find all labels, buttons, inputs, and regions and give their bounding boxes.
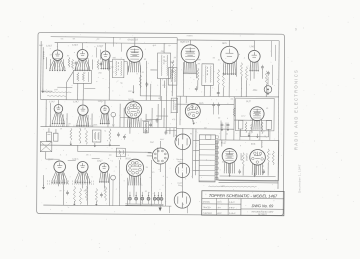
wire net verts [217,85,219,96]
box lower right of V8 [266,121,271,130]
svg-text:1M: 1M [109,155,112,157]
svg-text:5Y3: 5Y3 [250,120,253,122]
wire bus y146 [40,144,119,147]
wire V1 side drops [49,59,51,69]
wire amp bottom [219,180,278,182]
svg-text:15: 15 [84,128,86,130]
svg-text:250: 250 [98,73,101,75]
resistor R21 [73,186,75,202]
ground bottom a [73,201,75,203]
wire top bus [51,36,177,39]
tube V4 50L6GT output [127,46,143,62]
speaker plug P1 [175,134,191,150]
svg-text:100K: 100K [93,124,98,126]
capacitor C16 [262,170,265,172]
svg-text:LA6: LA6 [250,45,255,48]
wire V2 side drops [75,66,77,71]
wire V9 top [57,100,59,105]
svg-text:12Q7: 12Q7 [97,45,104,48]
resistor R25 [104,187,106,201]
svg-text:OUTPUT: OUTPUT [175,102,177,110]
svg-text:2-10-47: 2-10-47 [229,213,236,215]
svg-text:3: 3 [224,80,225,82]
resistor R19 [85,130,87,144]
svg-text:6: 6 [171,91,172,93]
svg-text:40: 40 [266,108,268,110]
svg-text:12K7: 12K7 [73,101,79,104]
resistor R1b [68,57,70,67]
svg-text:25: 25 [146,167,148,169]
capacitor C21 [165,131,168,133]
svg-text:ANT: ANT [39,44,44,47]
resistor R10 [240,63,242,77]
wire drops topleft [62,59,64,70]
svg-text:20: 20 [218,117,220,119]
svg-text:8: 8 [232,62,233,64]
tube V19 6V5 [185,103,200,118]
svg-text:.1: .1 [92,55,94,57]
resistor R27 [267,149,269,163]
svg-text:8: 8 [139,79,140,81]
svg-text:TOPPER SCHEMATIC - MODEL 14: TOPPER SCHEMATIC - MODEL 1467 [209,193,278,199]
rectifier box [235,98,274,131]
electrolytic can A [46,132,51,141]
title block frame [202,191,284,216]
svg-text:4: 4 [57,66,58,68]
wire h-net1 [177,95,279,98]
dial lamp row3 [111,175,116,180]
svg-text:.5: .5 [244,58,246,60]
resistor R16 [261,122,263,134]
ground V8 a [248,133,250,135]
wire mid bus [41,100,177,101]
wire right top drop [271,41,273,57]
wire left bus [40,41,42,99]
note handwriting bottom [209,186,257,187]
svg-text:2-8-47: 2-8-47 [229,207,234,209]
output transformer small [171,98,178,113]
svg-text:TRACED: TRACED [203,206,211,209]
wire bottom bus [43,205,171,206]
wire amp verts [229,164,231,175]
svg-text:3: 3 [220,169,221,171]
svg-text:.1: .1 [115,189,117,191]
svg-text:6: 6 [163,185,164,187]
resistor R5 [139,75,141,88]
wire V1 grid cap [57,43,59,50]
svg-text:5: 5 [78,64,79,66]
wire loop leads [45,152,47,159]
svg-text:.1: .1 [60,154,62,156]
svg-text:5: 5 [270,154,271,156]
capacitor C7 [221,123,224,125]
svg-text:2: 2 [117,81,118,83]
capacitor C11 [117,133,120,135]
svg-text:12A7: 12A7 [48,158,54,161]
svg-text:+: + [58,96,59,98]
tube V2 12SK7 IF amp [77,49,88,60]
capacitor C6 [261,66,264,68]
tube socket S1 [152,148,168,164]
wire V5 to box [182,62,184,96]
capacitor C15 [238,170,241,172]
tube V8 rectifier [250,107,264,121]
IF transformer T3 [157,53,170,79]
wire arrow V4 cathode [132,85,134,91]
resistor R15 [250,123,252,134]
wire right mids [176,128,195,130]
wire rect box drops [239,131,241,140]
svg-text:5: 5 [92,176,93,178]
svg-text:3: 3 [157,85,158,87]
svg-text:250: 250 [163,61,166,63]
capacitor C8 [227,124,230,126]
svg-text:osc: osc [61,38,64,40]
svg-text:2: 2 [246,160,247,162]
svg-text:50: 50 [158,98,160,100]
tube V13 [54,161,66,173]
svg-text:9: 9 [295,28,297,32]
wire osc drops [77,83,79,99]
wire h-net3 [233,97,235,140]
svg-text:2M: 2M [112,125,115,127]
svg-text:12Q7: 12Q7 [98,100,105,103]
svg-text:4: 4 [114,171,115,173]
capacitor C22 [145,130,148,132]
tube V14 [77,161,88,172]
wire top gaps [96,47,98,57]
tube V5 6Q6GT [181,45,199,63]
ground V19 [192,119,194,122]
wire socket leads [159,141,161,148]
capacitor C1b [75,62,78,64]
svg-text:2-6-47: 2-6-47 [229,202,234,204]
resistor R11 [245,67,247,81]
wire right col [216,141,218,179]
svg-text:.02: .02 [230,99,233,101]
wire section divider [175,38,178,141]
capacitor C12 [123,136,126,138]
wire h-net4 [234,119,272,121]
svg-text:1: 1 [66,154,67,156]
wire T2 links [109,61,112,63]
svg-text:456: 456 [161,51,164,53]
terminal strip TS1 [199,135,215,182]
wire V8 bottom [239,129,241,137]
svg-text:4: 4 [255,70,256,72]
svg-text:.05: .05 [67,55,70,57]
wire L-bend row2 [146,96,161,120]
coupling coil box A [168,68,177,86]
tube V9 [54,104,63,113]
tube V11 [101,105,110,114]
svg-text:pad: pad [54,89,57,91]
resistor R2b [71,59,73,69]
svg-text:500: 500 [110,67,113,69]
svg-text:6K5: 6K5 [222,42,227,45]
svg-text:1: 1 [270,62,271,64]
svg-text:CHECKED: CHECKED [203,213,213,215]
oscillator coil box [73,70,91,83]
resistor R7 [217,69,219,85]
svg-text:gnd: gnd [222,185,225,187]
IF transformer T2 [112,59,124,78]
svg-text:2: 2 [201,91,202,93]
svg-text:Plug: Plug [178,161,182,163]
svg-text:25: 25 [103,191,105,193]
ground C7 [221,127,223,129]
svg-text:20MFD: 20MFD [247,153,249,161]
capacitor C3 [145,83,148,85]
svg-text:2: 2 [86,66,87,68]
svg-text:Plug: Plug [178,185,182,187]
svg-text:6.3: 6.3 [152,172,155,174]
svg-text:12A7: 12A7 [50,53,54,56]
resistor R24 [95,188,97,202]
tube V7 LA6 [248,50,260,62]
capacitor C13 [66,191,69,193]
svg-text:+: + [152,193,153,195]
svg-text:.05: .05 [86,154,89,156]
resistor R22 [79,188,81,204]
svg-text:heaters: heaters [187,34,193,37]
svg-text:250: 250 [162,85,165,87]
ground amp [229,173,231,175]
tube V1 12SA7 converter [52,50,62,60]
svg-text:6V6: 6V6 [251,143,256,146]
wire top bus right [177,39,279,42]
resistor R20 [109,129,111,142]
ground left bottom [43,175,45,186]
svg-text:6: 6 [112,117,113,119]
wire mid bus2 [40,127,176,128]
ground bottom b [95,202,97,204]
wire bottom right drops [186,206,188,213]
tube V18 6V6GT [250,149,266,165]
svg-text:2: 2 [90,154,91,156]
svg-text:avc: avc [97,38,100,40]
svg-text:2: 2 [247,66,248,68]
ground antenna [42,89,44,91]
svg-text:117V: 117V [241,116,246,118]
svg-text:5: 5 [167,177,168,179]
speaker plug P2 [175,163,189,177]
svg-text:12A7: 12A7 [46,45,52,48]
svg-text:5: 5 [66,118,67,120]
wire V4 drops [139,65,141,95]
resistor R28 [272,151,274,165]
svg-text:1: 1 [170,123,171,125]
wire AVC bus [55,42,177,45]
wire V7 top [253,41,255,51]
resistor R14 [245,122,247,133]
svg-text:1: 1 [196,145,197,147]
wire drops row3 [58,174,60,186]
pin ticks V13 [47,180,49,182]
pin ticks V10 [73,125,75,127]
loop antenna box [40,142,52,152]
svg-text:DWG No. 69: DWG No. 69 [252,204,274,208]
resistor R3 [97,60,99,70]
coupling coil box B [202,64,214,86]
svg-text:20: 20 [60,128,62,130]
svg-text:2: 2 [46,108,47,110]
svg-text:+: + [211,99,212,101]
svg-text:12A7: 12A7 [49,100,55,103]
bias resistor box [143,121,148,133]
svg-text:6Q8 GT: 6Q8 GT [180,41,189,44]
capacitor C23 [149,123,152,125]
wire plug links [182,150,184,164]
svg-text:500K: 500K [196,59,201,61]
tube V6 6V6 [221,46,239,64]
resistor R6 [172,60,174,73]
capacitor C14 [100,194,103,196]
amplifier chassis box [217,140,279,180]
wire box drops [203,85,205,96]
wire net5 [196,128,234,130]
svg-text:.01: .01 [217,59,220,61]
resistor R17 [70,128,72,140]
svg-text:+: + [119,95,120,97]
svg-text:+: + [216,99,217,101]
fuse box [205,135,211,140]
svg-text:2: 2 [130,123,131,125]
svg-text:.02: .02 [141,72,144,74]
wire right bus [278,41,279,189]
svg-text:5: 5 [212,87,213,89]
svg-text:50L6: 50L6 [125,157,131,160]
svg-text:6SA7: 6SA7 [160,138,164,141]
svg-text:5: 5 [112,161,113,163]
svg-text:470: 470 [172,119,175,121]
wire row3 links [52,158,60,160]
schematic border frame [37,32,285,215]
tube V16 [126,159,143,176]
speaker plug P3 [174,192,190,208]
svg-text:.1: .1 [125,63,126,65]
resistor R13 [233,108,235,117]
svg-text:.05: .05 [144,191,147,193]
svg-text:250K: 250K [222,161,227,163]
svg-text:10: 10 [262,166,264,168]
electrolytic can B [53,133,58,141]
wire padder diagonal [66,71,73,83]
tube V17 6SJ7 [222,148,237,163]
svg-text:fld: fld [190,133,192,135]
wire col a [45,100,47,127]
svg-text:OSC: OSC [150,142,155,144]
resistor R18 [79,128,81,143]
note handwriting oscillator [44,91,71,94]
wire cans top [48,128,50,132]
svg-text:DRAWN: DRAWN [203,201,211,204]
svg-text:.05: .05 [68,123,71,125]
capacitor bank cans [128,197,131,200]
svg-text:4: 4 [193,79,194,81]
svg-text:2: 2 [70,176,71,178]
resistor R26 [242,153,244,167]
svg-text:6: 6 [159,189,160,191]
wire strip leads [193,139,199,141]
svg-text:3: 3 [128,155,129,157]
capacitor C5 [217,91,220,93]
tone box [92,130,101,142]
tube V15 [99,163,109,173]
svg-text:.1: .1 [145,49,147,51]
wire row2 right lines [165,96,167,132]
phono jack Mike [264,86,272,94]
box lower left of V8 [238,120,243,129]
svg-text:16: 16 [264,136,266,138]
svg-text:B+: B+ [169,45,171,47]
ground row2 [70,141,72,143]
tube V12 [125,102,142,119]
ground V8 b [256,134,258,136]
svg-text:3: 3 [49,64,50,66]
svg-text:Mike: Mike [253,90,258,92]
wire link V1V2 [53,58,63,60]
svg-text:6V5: 6V5 [199,102,204,105]
svg-text:3: 3 [90,118,91,120]
svg-text:6AC5 GT: 6AC5 GT [128,39,139,42]
svg-text:December 1, 1947: December 1, 1947 [298,164,302,193]
resistor R23 [85,186,87,200]
svg-text:456: 456 [113,57,116,59]
svg-text:6U7: 6U7 [246,100,251,103]
IF transformer T6 [116,148,125,157]
electrolytic pair [212,103,215,105]
wire row2 links [120,117,133,119]
svg-text:50: 50 [120,83,122,85]
dial lamp row2 [111,112,116,117]
wire col b [119,104,121,127]
capacitor C20 [156,119,159,121]
svg-text:DETROIT: DETROIT [258,214,268,216]
wire T3 links [163,43,165,53]
capacitor C2 [100,63,103,65]
tube V10 [78,105,88,115]
resistor R12 [265,71,267,85]
antenna input [42,47,44,91]
wire row2 drops [62,114,64,126]
capacitor C4 [195,87,198,89]
svg-text:50: 50 [59,190,61,192]
svg-text:1: 1 [181,69,182,71]
svg-text:RADIO AND ELECTRONICS: RADIO AND ELECTRONICS [294,69,299,150]
svg-text:12K7: 12K7 [72,44,78,47]
resistor R8 [222,72,224,88]
tube V3 12SQ7 det [101,51,110,60]
svg-text:fld: fld [175,135,177,137]
svg-text:12Q7: 12Q7 [97,160,104,163]
wire bias bus [78,151,151,154]
svg-text:7: 7 [101,59,102,61]
pin ticks V14 [72,180,74,182]
svg-text:ECH: ECH [217,202,222,204]
svg-text:4: 4 [150,119,151,121]
svg-text:40: 40 [226,134,228,136]
svg-text:.02: .02 [143,59,146,61]
wire below osc [57,86,72,88]
wire h-net2 [177,103,234,105]
svg-text:3: 3 [46,168,47,170]
capacitor bank bus [125,203,163,205]
scan speckle [194,38,197,41]
resistor R9 [197,68,199,80]
pin ticks V9 [49,125,51,127]
svg-text:2: 2 [142,185,143,187]
